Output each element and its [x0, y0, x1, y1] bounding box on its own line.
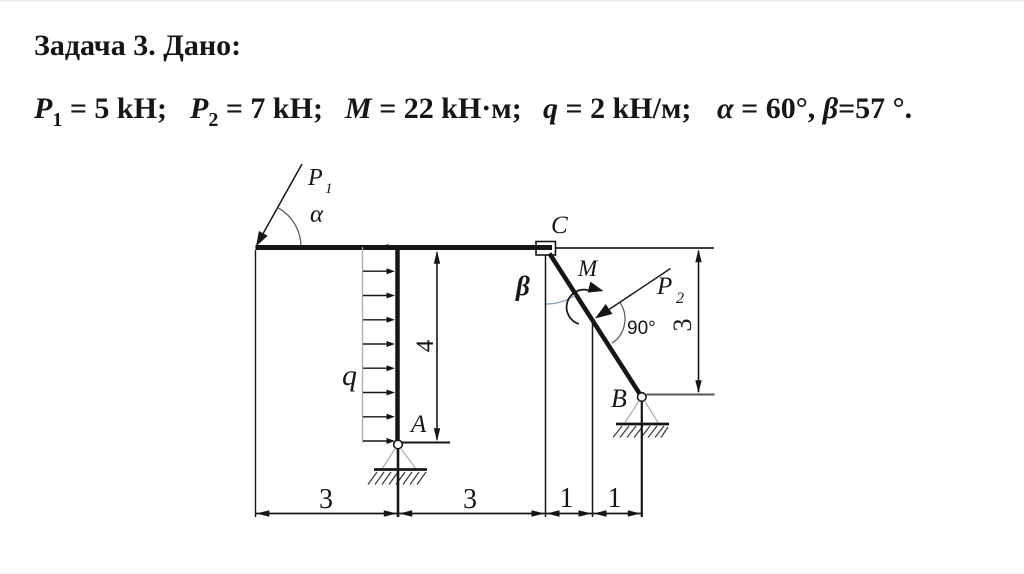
dim 4 arrowheads: [434, 251, 440, 264]
dim 3 right line: [698, 251, 700, 392]
bottom dim arrows: [256, 510, 641, 516]
svg-text:1: 1: [325, 181, 333, 197]
left extension line: [255, 250, 257, 517]
moment M arrowhead: [588, 282, 604, 293]
svg-text:A: A: [409, 411, 427, 438]
member A vertical (thick): [395, 245, 400, 441]
svg-text:90°: 90°: [627, 318, 656, 339]
svg-text:α: α: [310, 201, 324, 228]
A level line: [400, 442, 450, 444]
support B hatch: [613, 426, 668, 438]
moment M arc: [567, 290, 589, 324]
bottom dim line: [256, 513, 642, 515]
extension below C: [545, 255, 547, 517]
svg-text:3: 3: [668, 319, 697, 332]
svg-text:C: C: [551, 212, 568, 239]
svg-text:M: M: [577, 256, 599, 281]
B level line: [647, 394, 715, 396]
force P1 line: [262, 164, 302, 236]
extension below A: [397, 449, 400, 517]
thin line right of C: [556, 247, 715, 249]
member CB (inclined, thick): [550, 254, 640, 394]
force P2 arrowhead: [595, 304, 613, 319]
svg-text:P: P: [307, 165, 323, 191]
support B ground: [616, 423, 669, 426]
svg-text:β: β: [515, 271, 530, 301]
force P1 arrowhead: [256, 231, 268, 247]
support A ground: [374, 468, 427, 471]
svg-text:1: 1: [560, 483, 574, 514]
hinge A circle: [394, 440, 403, 449]
dim 3 right arrowheads: [695, 249, 701, 262]
mid extension line: [592, 321, 594, 517]
title line: [34, 31, 241, 61]
dim 4 line: [436, 253, 438, 440]
extension below B: [641, 401, 643, 517]
svg-text:P: P: [656, 273, 672, 300]
beta arc: [546, 296, 575, 305]
bottom dim labels: [319, 483, 622, 515]
svg-text:4: 4: [412, 339, 439, 352]
given data line: [34, 94, 167, 130]
beam (top horizontal, thick): [256, 245, 553, 250]
svg-text:3: 3: [463, 484, 477, 515]
support A legs: [382, 448, 396, 469]
angle alpha arc: [278, 208, 301, 247]
svg-text:B: B: [611, 384, 627, 413]
angle 90 arc: [612, 303, 625, 344]
joint C square fill: [536, 242, 556, 256]
force P2 line: [609, 269, 671, 310]
support A hatch: [368, 472, 426, 485]
support B legs: [625, 401, 639, 423]
svg-text:3: 3: [319, 484, 333, 515]
faint page edge top: [0, 0, 1024, 1]
distributed load baseline: [362, 247, 364, 443]
svg-text:q: q: [342, 359, 357, 392]
distributed load arrows: [363, 247, 388, 441]
svg-text:1: 1: [608, 483, 622, 514]
svg-text:2: 2: [676, 290, 684, 307]
joint C square border: [536, 242, 556, 256]
hinge B circle: [638, 393, 647, 402]
